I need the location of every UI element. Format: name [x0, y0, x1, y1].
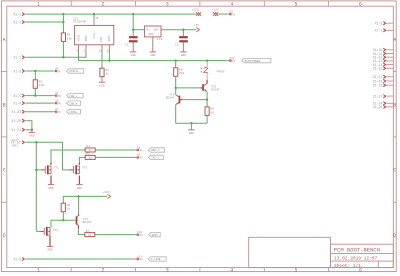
svg-text:Sheet: 1/1: Sheet: 1/1	[334, 263, 361, 269]
svg-text:DOUT: DOUT	[85, 35, 88, 42]
node junction C2 tap	[182, 29, 184, 31]
wire VT4 collector to R7	[77, 225, 79, 228]
svg-text:TXD-1: TXD-1	[151, 157, 159, 160]
svg-text:C1: C1	[125, 44, 129, 47]
svg-text:"PR05": "PR05"	[216, 69, 226, 73]
svg-text:4: 4	[230, 1, 233, 7]
wire net X1-9	[26, 95, 53, 97]
ground below VT3	[47, 245, 53, 247]
svg-text:ST3243B: ST3243B	[73, 21, 86, 24]
IC1 bottom pin stubs with numbers	[78, 45, 80, 50]
wire to ground	[31, 130, 33, 132]
net label TXD-1	[148, 155, 163, 159]
svg-text:56: 56	[210, 111, 214, 114]
wire R8 node down to VT6 collector	[175, 88, 177, 95]
wire IC1 pin 12 to MSTR-POWER	[108, 50, 110, 61]
svg-text:BC847: BC847	[166, 97, 175, 100]
wire R1 to X1-7 net	[62, 41, 64, 57]
node junction R1/X1-7	[62, 56, 64, 58]
svg-text:R6: R6	[67, 204, 71, 207]
svg-text:CNTRL: CNTRL	[69, 111, 77, 114]
net label on X4	[67, 69, 84, 73]
net label CAN-H	[67, 101, 81, 105]
wire net MSTR-POWER from IC1 pin	[79, 50, 228, 61]
svg-text:X1-22: X1-22	[373, 94, 383, 98]
wire to ground	[190, 123, 192, 127]
test pin X4	[55, 70, 57, 72]
svg-text:X1-21: X1-21	[11, 128, 21, 132]
svg-text:1k: 1k	[67, 207, 71, 211]
ground below VT2	[76, 184, 82, 186]
node junction ground tap	[190, 122, 192, 124]
svg-text:BOOT: BOOT	[152, 234, 159, 237]
wire net X1-8	[26, 70, 53, 72]
transistor VT4 BC807 pnp	[78, 196, 80, 214]
node junction C1/IC2	[132, 13, 134, 15]
svg-text:VT3: VT3	[53, 229, 58, 232]
svg-text:20k: 20k	[179, 71, 185, 75]
ground below R2	[99, 81, 105, 83]
wire R7 to X10	[95, 234, 136, 236]
node junction X1-1/R1	[62, 13, 64, 15]
ground below VT6	[188, 129, 194, 131]
node junction boot net	[35, 141, 37, 143]
op-amp IC1 ST3243B box	[75, 25, 114, 44]
wire C1 to ground	[132, 42, 134, 47]
wire +3V3 rail	[63, 196, 107, 203]
svg-text:C2: C2	[175, 44, 179, 47]
wire boot net to VT2 gate	[63, 142, 70, 170]
wire to R9	[206, 100, 208, 107]
svg-text:13k: 13k	[67, 36, 73, 40]
svg-text:B: B	[393, 102, 396, 108]
svg-text:R2: R2	[105, 69, 109, 72]
net label RXD-1	[148, 148, 164, 152]
IC2 ground pin	[152, 37, 154, 39]
frame row ticks	[1, 71, 6, 73]
svg-text:+12V: +12V	[212, 8, 219, 11]
svg-text:X1-5: X1-5	[375, 29, 383, 33]
node junction VT5 base/R8	[175, 87, 177, 89]
resistor R6	[61, 203, 65, 212]
svg-text:GND: GND	[181, 54, 186, 57]
test pin X8	[137, 149, 139, 151]
node junction R8 tap	[175, 59, 177, 61]
svg-text:X1-7: X1-7	[13, 56, 21, 60]
svg-text:GND: GND	[99, 85, 104, 88]
wire MSTR-POWER to R8	[175, 61, 177, 68]
test pin X5	[55, 95, 57, 97]
resistor R7	[85, 233, 95, 237]
wire VT3 drain up	[50, 220, 52, 227]
svg-text:CAN-L: CAN-L	[69, 95, 77, 98]
svg-text:IN: IN	[145, 28, 149, 31]
test pin X9	[137, 157, 139, 159]
IC2 output wire +3V	[161, 29, 163, 31]
wire X1-1 rail down to R1	[62, 14, 64, 33]
title block document field box	[249, 237, 331, 267]
node junction R3 top	[34, 70, 36, 72]
wire R8 to VT5 base node	[175, 76, 177, 88]
wire net X1-2	[26, 21, 63, 23]
svg-text:R1: R1	[67, 34, 71, 37]
node junction X1-20/X1-21	[31, 129, 33, 131]
wire R6 bottom to base node	[62, 212, 64, 221]
svg-text:GND: GND	[48, 187, 53, 190]
wire net X1-20	[26, 121, 32, 130]
resistor R9	[205, 107, 209, 116]
svg-text:VCC+: VCC+	[93, 32, 96, 39]
svg-text:PCM BOOT-BENCH: PCM BOOT-BENCH	[334, 246, 380, 253]
test pin X6	[55, 102, 57, 104]
svg-text:13.02.2019 12:07: 13.02.2019 12:07	[334, 256, 378, 262]
resistor R5	[85, 155, 95, 159]
svg-text:RIN: RIN	[100, 37, 103, 42]
wire R3 top	[34, 71, 36, 80]
wire VT6 emitter down	[175, 105, 177, 123]
svg-text:GND: GND	[149, 33, 154, 36]
wire IC1 pin 13 down to R2	[101, 50, 103, 68]
test pin X7	[55, 111, 57, 113]
wire R3 bottom	[34, 88, 36, 95]
svg-text:A: A	[393, 37, 396, 43]
svg-text:1k: 1k	[105, 72, 109, 76]
node junction pin12	[108, 59, 110, 61]
svg-text:CNF1: CNF1	[12, 144, 19, 147]
transistor VT3 n-mosfet	[36, 230, 40, 232]
supply arrow +3V3	[107, 194, 110, 198]
svg-text:GND: GND	[150, 54, 155, 57]
svg-text:1: 1	[37, 267, 40, 273]
transistor VT6 BC847 mirrored	[179, 96, 181, 104]
wire net X1-23	[26, 111, 53, 113]
supply arrow +3V	[196, 28, 199, 32]
svg-text:D: D	[3, 233, 6, 239]
svg-text:R3: R3	[39, 80, 43, 83]
resistor R4	[85, 148, 95, 152]
test pin X12	[230, 60, 232, 62]
ground below IC2	[150, 51, 156, 53]
svg-text:X1-1: X1-1	[13, 12, 21, 16]
svg-text:1k: 1k	[88, 156, 92, 160]
wire to IC2 IN	[133, 29, 142, 31]
wire C2 to ground	[182, 42, 184, 47]
ground below VT1	[48, 184, 54, 186]
svg-text:RXD-1: RXD-1	[151, 149, 159, 152]
svg-text:A: A	[3, 37, 6, 43]
svg-text:1k: 1k	[88, 233, 92, 237]
node junction VT4 emitter	[77, 195, 79, 197]
node junction X1-2 tap	[62, 21, 64, 23]
wire net +12V from X1-1	[26, 13, 196, 15]
wire VT1 source to ground	[50, 176, 52, 185]
wire net X1-16 boot	[26, 141, 62, 143]
lamp PR05 2-pin jumper	[206, 61, 208, 68]
svg-text:16: 16	[95, 17, 99, 20]
svg-text:1k: 1k	[88, 148, 92, 152]
node junction IC1 pin16	[93, 13, 95, 15]
ground below C2	[180, 51, 186, 53]
wire net X1-4	[26, 102, 53, 104]
wire VT2 source to ground	[78, 176, 80, 185]
svg-text:GND: GND	[29, 135, 34, 138]
svg-text:X1-8: X1-8	[13, 69, 21, 73]
svg-text:GND: GND	[189, 132, 194, 135]
svg-text:VT1: VT1	[54, 166, 59, 169]
wire R2 to ground	[101, 77, 103, 82]
wire R9 bottom	[206, 115, 208, 123]
wire R4 to X8	[95, 149, 135, 151]
wire boot net down the left side	[35, 142, 37, 231]
svg-text:X1-4: X1-4	[13, 101, 21, 105]
wire net X1-6 K-LINE	[26, 258, 132, 260]
svg-text:IC2: IC2	[157, 38, 163, 41]
net label CNTRL	[67, 110, 81, 114]
svg-text:5: 5	[294, 267, 297, 273]
test pin X10	[137, 234, 139, 236]
svg-text:BC847: BC847	[211, 89, 220, 92]
wire base node	[51, 219, 74, 221]
svg-text:6: 6	[359, 1, 362, 7]
transistor VT5 BC847	[206, 80, 208, 84]
svg-text:BC807: BC807	[83, 221, 92, 224]
svg-text:R8: R8	[179, 68, 183, 71]
svg-text:2: 2	[101, 267, 104, 273]
svg-text:X1-25: X1-25	[373, 105, 383, 109]
node junction VT5 emitter / VT6 base / R9	[206, 98, 208, 100]
svg-text:R4: R4	[86, 145, 90, 148]
net label BOOT	[149, 232, 161, 236]
svg-text:3: 3	[166, 1, 169, 7]
wire VT5 emitter down	[206, 92, 208, 100]
svg-text:B: B	[3, 102, 6, 108]
supply symbol +12V feeding X2	[213, 12, 216, 16]
svg-text:MCSCL1: MCSCL1	[69, 70, 79, 73]
svg-text:C: C	[3, 168, 6, 174]
wire VT1 drain to R4	[50, 162, 52, 165]
wire to VT1 gate	[36, 169, 41, 171]
wire VT5 base	[176, 87, 201, 89]
wire net X1-21	[26, 129, 32, 131]
net label CAN-L	[67, 93, 84, 97]
svg-text:X1-6: X1-6	[13, 257, 21, 261]
svg-text:+3V3: +3V3	[103, 191, 110, 194]
svg-text:C: C	[393, 168, 396, 174]
capacitor C2	[179, 36, 188, 38]
svg-text:4: 4	[230, 267, 233, 273]
svg-text:X1-9: X1-9	[13, 94, 21, 98]
resistor R1	[61, 33, 65, 42]
svg-text:GND: GND	[77, 187, 82, 190]
resistor R8	[174, 68, 178, 77]
svg-text:2: 2	[101, 1, 104, 7]
svg-text:X1-20: X1-20	[11, 119, 21, 123]
wire VT2 drain to R5	[78, 162, 80, 165]
node junction R6/VT3/VT4	[62, 219, 64, 221]
resistor R2	[100, 68, 104, 77]
svg-text:GND: GND	[131, 54, 136, 57]
title block info box	[330, 244, 393, 267]
svg-text:R5: R5	[86, 153, 90, 156]
svg-text:D: D	[393, 233, 396, 239]
svg-text:+12V: +12V	[192, 8, 199, 11]
frame column ticks	[70, 1, 72, 6]
svg-text:1: 1	[37, 1, 40, 7]
svg-text:X1-23: X1-23	[11, 110, 21, 114]
voltage regulator IC2	[144, 26, 161, 37]
net label MSTR-POWER	[242, 58, 271, 62]
svg-text:X1-3: X1-3	[375, 21, 383, 25]
test pin X2	[230, 13, 232, 15]
svg-text:DIN1: DIN1	[78, 34, 81, 41]
ground below C1	[130, 51, 136, 53]
svg-text:CAN-H: CAN-H	[69, 102, 77, 105]
wire R5 to X9	[95, 156, 135, 158]
wire +12V rail down to C1/IC2	[132, 14, 134, 36]
IC1 pin 16 stub	[93, 20, 95, 25]
svg-text:VT2: VT2	[82, 166, 87, 169]
svg-text:X1-2: X1-2	[13, 20, 21, 24]
svg-text:X1-15: X1-15	[373, 67, 383, 71]
test pin X11	[137, 258, 139, 260]
svg-text:MSTR-POWER: MSTR-POWER	[245, 60, 261, 63]
svg-text:ROUT: ROUT	[108, 35, 111, 42]
svg-text:R9: R9	[210, 108, 214, 111]
svg-text:3: 3	[166, 267, 169, 273]
node junction IC2 input	[132, 29, 134, 31]
ground for X1-20/X1-21	[29, 131, 35, 133]
svg-text:GND: GND	[47, 249, 52, 252]
wire VT3 source to ground	[49, 236, 51, 246]
svg-text:OUT: OUT	[154, 28, 159, 31]
resistor R3	[33, 80, 37, 89]
transistor VT1 n-mosfet	[44, 166, 46, 173]
node junction lamp tap	[206, 59, 208, 61]
supply symbol +12V	[196, 12, 199, 16]
svg-text:+3V: +3V	[194, 24, 199, 27]
svg-text:5: 5	[294, 1, 297, 7]
node junction R3/X1-9	[34, 94, 36, 96]
capacitor C1	[129, 36, 138, 38]
wire lamp to VT5 collector	[206, 73, 208, 80]
wire net X1-7	[26, 50, 86, 57]
node junction VT1 gate tap	[35, 169, 37, 171]
svg-text:11R: 11R	[39, 84, 45, 87]
wire C2 to +3V net	[182, 30, 184, 36]
svg-text:K-LINE: K-LINE	[151, 258, 161, 261]
wire +12V to X2	[219, 13, 228, 15]
wire VT6 base to VT5 emitter node	[180, 99, 182, 101]
net label K-LINE	[148, 257, 166, 261]
svg-text:X1-19: X1-19	[373, 83, 383, 87]
svg-text:R7: R7	[86, 230, 90, 233]
transistor VT2 n-mosfet	[73, 166, 75, 173]
wire emitter node to R9 bottom	[176, 122, 207, 124]
